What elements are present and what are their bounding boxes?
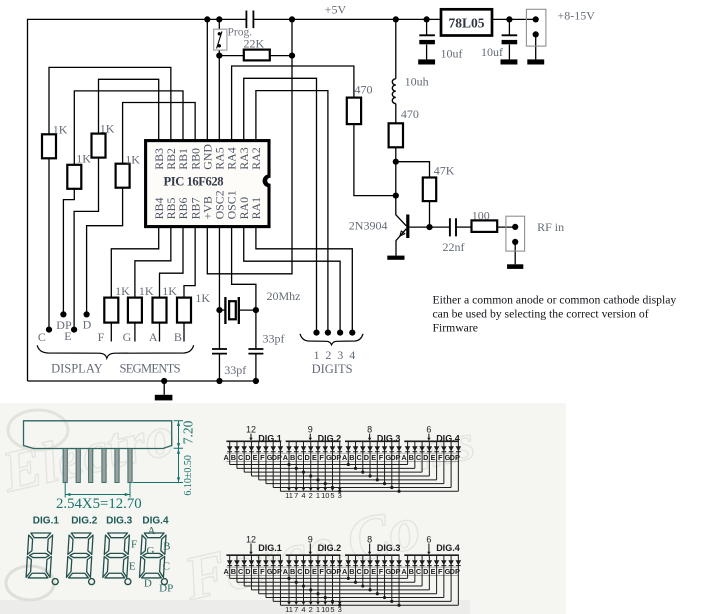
svg-text:9: 9: [308, 535, 313, 545]
svg-text:DIG.2: DIG.2: [71, 516, 98, 527]
svg-text:DIG.3: DIG.3: [377, 543, 401, 553]
svg-text:C: C: [416, 567, 422, 576]
svg-text:B: B: [409, 453, 414, 462]
svg-text:470: 470: [401, 107, 419, 121]
svg-text:E: E: [431, 567, 436, 576]
svg-text:G: G: [147, 545, 155, 557]
svg-text:+8-15V: +8-15V: [558, 8, 596, 22]
svg-text:PIC 16F628: PIC 16F628: [164, 175, 224, 189]
svg-text:F: F: [438, 567, 443, 576]
svg-text:1: 1: [316, 605, 320, 614]
svg-text:DIG.2: DIG.2: [318, 543, 342, 553]
svg-text:B: B: [163, 541, 170, 553]
svg-text:E: E: [312, 567, 317, 576]
svg-text:DIG.1: DIG.1: [258, 434, 282, 444]
svg-text:D: D: [364, 453, 369, 462]
svg-text:D: D: [305, 567, 310, 576]
svg-text:10uh: 10uh: [405, 75, 429, 89]
svg-text:1K: 1K: [162, 284, 177, 298]
svg-text:1K: 1K: [100, 121, 115, 135]
svg-text:C: C: [297, 567, 303, 576]
svg-text:4: 4: [301, 605, 305, 614]
svg-text:F: F: [319, 453, 324, 462]
svg-text:D: D: [83, 318, 92, 332]
svg-text:DIG.1: DIG.1: [258, 543, 282, 553]
svg-text:3: 3: [338, 605, 342, 614]
svg-text:RF in: RF in: [537, 220, 564, 234]
svg-text:47K: 47K: [434, 164, 455, 178]
svg-text:9: 9: [308, 425, 313, 435]
svg-text:1K: 1K: [115, 284, 130, 298]
svg-text:B: B: [231, 453, 236, 462]
svg-text:DP: DP: [272, 453, 282, 462]
svg-text:C: C: [38, 330, 46, 344]
svg-text:11: 11: [285, 491, 293, 500]
svg-text:12: 12: [246, 535, 256, 545]
svg-text:F: F: [131, 539, 137, 551]
svg-text:1: 1: [316, 491, 320, 500]
svg-text:DIG.2: DIG.2: [318, 434, 342, 444]
svg-text:100: 100: [472, 208, 490, 222]
svg-text:E: E: [253, 567, 258, 576]
svg-text:A: A: [149, 330, 158, 344]
svg-text:B: B: [349, 567, 354, 576]
svg-text:SEGMENTS: SEGMENTS: [120, 362, 181, 376]
svg-text:2: 2: [325, 348, 331, 362]
svg-text:7: 7: [294, 605, 298, 614]
svg-text:G: G: [123, 330, 132, 344]
svg-text:78L05: 78L05: [448, 15, 484, 30]
svg-text:3: 3: [338, 491, 342, 500]
svg-text:10: 10: [321, 605, 329, 614]
svg-text:+5V: +5V: [325, 3, 347, 17]
svg-text:DIGITS: DIGITS: [312, 362, 353, 376]
svg-text:E: E: [371, 567, 376, 576]
svg-text:A: A: [223, 567, 229, 576]
svg-text:B: B: [349, 453, 354, 462]
svg-text:2: 2: [309, 491, 313, 500]
svg-text:10: 10: [321, 491, 329, 500]
svg-text:A: A: [283, 453, 289, 462]
svg-text:E: E: [312, 453, 317, 462]
svg-text:F: F: [379, 567, 384, 576]
svg-text:C: C: [416, 453, 422, 462]
svg-text:DIG.4: DIG.4: [436, 543, 460, 553]
svg-text:A: A: [283, 567, 289, 576]
svg-text:22K: 22K: [244, 36, 265, 50]
svg-text:5: 5: [330, 491, 334, 500]
svg-text:can be used by selecting the c: can be used by selecting the correct ver…: [433, 308, 649, 321]
svg-text:4: 4: [301, 491, 305, 500]
svg-text:D: D: [423, 567, 428, 576]
svg-text:D: D: [364, 567, 369, 576]
svg-text:DP: DP: [159, 583, 173, 595]
svg-text:D: D: [245, 567, 250, 576]
svg-text:C: C: [163, 561, 170, 573]
svg-text:DIG.4: DIG.4: [436, 434, 460, 444]
svg-text:A: A: [342, 453, 348, 462]
svg-text:RA2: RA2: [249, 147, 263, 170]
svg-text:B: B: [174, 330, 182, 344]
svg-text:F: F: [319, 567, 324, 576]
svg-text:F: F: [260, 567, 265, 576]
svg-text:DP: DP: [450, 567, 460, 576]
svg-text:C: C: [357, 453, 363, 462]
svg-text:DIG.3: DIG.3: [106, 516, 133, 527]
svg-text:Either a common anode or commo: Either a common anode or common cathode …: [433, 294, 677, 307]
svg-text:C: C: [238, 453, 244, 462]
svg-text:6: 6: [426, 425, 431, 435]
svg-text:A: A: [401, 567, 407, 576]
svg-text:D: D: [144, 578, 152, 590]
svg-text:DISPLAY: DISPLAY: [51, 362, 103, 376]
svg-text:4: 4: [349, 348, 355, 362]
svg-text:8: 8: [367, 425, 372, 435]
svg-text:11: 11: [285, 605, 293, 614]
svg-text:1: 1: [314, 348, 320, 362]
svg-text:E: E: [64, 329, 71, 343]
svg-text:2.54X5=12.70: 2.54X5=12.70: [56, 496, 142, 512]
svg-text:12: 12: [246, 425, 256, 435]
svg-text:E: E: [431, 453, 436, 462]
svg-text:6.10±0.50: 6.10±0.50: [183, 455, 194, 496]
svg-text:8: 8: [367, 535, 372, 545]
svg-text:2: 2: [309, 605, 313, 614]
svg-text:DP: DP: [331, 453, 341, 462]
svg-text:F: F: [260, 453, 265, 462]
svg-text:B: B: [409, 567, 414, 576]
svg-text:A: A: [223, 453, 229, 462]
svg-text:7.20: 7.20: [181, 420, 196, 444]
svg-text:E: E: [253, 453, 258, 462]
svg-text:33pf: 33pf: [263, 332, 285, 346]
svg-text:DIG.4: DIG.4: [142, 516, 169, 527]
svg-text:DP: DP: [272, 567, 282, 576]
svg-text:5: 5: [330, 605, 334, 614]
svg-text:DP: DP: [390, 453, 400, 462]
svg-text:E: E: [371, 453, 376, 462]
svg-text:10uf: 10uf: [441, 47, 463, 61]
svg-text:DIG.1: DIG.1: [33, 516, 60, 527]
svg-text:A: A: [342, 567, 348, 576]
svg-text:2N3904: 2N3904: [349, 218, 388, 232]
svg-text:C: C: [297, 453, 303, 462]
svg-text:6: 6: [426, 535, 431, 545]
svg-text:B: B: [290, 567, 295, 576]
svg-text:DIG.3: DIG.3: [377, 434, 401, 444]
svg-text:DP: DP: [450, 453, 460, 462]
svg-text:1K: 1K: [195, 291, 210, 305]
svg-text:10uf: 10uf: [481, 45, 503, 59]
svg-text:A: A: [148, 525, 156, 537]
svg-text:A: A: [401, 453, 407, 462]
svg-text:DP: DP: [390, 567, 400, 576]
svg-text:1K: 1K: [76, 151, 91, 165]
svg-text:20Mhz: 20Mhz: [267, 289, 301, 303]
svg-text:RA1: RA1: [249, 197, 263, 220]
svg-text:D: D: [305, 453, 310, 462]
svg-text:Firmware: Firmware: [433, 322, 478, 335]
svg-text:F: F: [98, 330, 105, 344]
svg-text:22nf: 22nf: [443, 240, 465, 254]
svg-text:C: C: [357, 567, 363, 576]
svg-text:DP: DP: [331, 567, 341, 576]
svg-text:D: D: [245, 453, 250, 462]
svg-text:B: B: [290, 453, 295, 462]
svg-text:E: E: [129, 561, 136, 573]
svg-text:7: 7: [294, 491, 298, 500]
svg-text:1K: 1K: [53, 122, 68, 136]
svg-text:470: 470: [355, 82, 373, 96]
svg-text:1K: 1K: [139, 284, 154, 298]
svg-text:F: F: [379, 453, 384, 462]
svg-text:1K: 1K: [125, 152, 140, 166]
svg-text:C: C: [238, 567, 244, 576]
svg-text:33pf: 33pf: [224, 363, 246, 377]
svg-text:3: 3: [337, 348, 343, 362]
svg-text:F: F: [438, 453, 443, 462]
svg-text:D: D: [423, 453, 428, 462]
svg-text:B: B: [231, 567, 236, 576]
